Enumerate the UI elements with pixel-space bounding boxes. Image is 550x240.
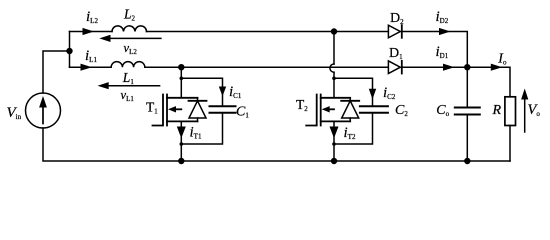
wire rail1 right segment [402, 32, 468, 68]
wire C1 bottom return [181, 113, 222, 144]
body diode of T2 [341, 98, 359, 122]
node output junction [464, 64, 470, 70]
arrow iT2 [330, 127, 339, 139]
wire T1 drain vertical [180, 67, 182, 98]
capacitor C2 [360, 106, 388, 112]
wire C2 bottom return [334, 113, 373, 144]
node bottom T1 junction [178, 158, 184, 164]
wire bottom rail [43, 128, 510, 161]
arrow iC2 [369, 89, 376, 99]
arrow iL2 [83, 28, 95, 35]
node C2 branch tee [332, 77, 336, 81]
arrow Vo [521, 89, 528, 133]
arrow vL2 [99, 35, 161, 42]
capacitor C1 [210, 106, 236, 112]
node rail2 T1 junction [178, 64, 184, 70]
wire split vertical [69, 32, 71, 68]
wire T1 source vertical [180, 121, 182, 161]
wire rail2 right segment [402, 66, 468, 68]
node C1 branch tee [180, 77, 184, 81]
wire Vin top to split node [43, 51, 70, 93]
arrow iT1 [177, 127, 186, 139]
wire rail1 middle segment [147, 31, 389, 33]
diode D2 [388, 25, 401, 38]
inductor L1 [111, 62, 145, 68]
inductor L2 [112, 26, 147, 32]
arrow vL1 [98, 82, 160, 89]
arrow Io [491, 64, 503, 71]
node rail1 T2 junction [331, 28, 337, 34]
wire output to R [467, 67, 510, 97]
wire T2 drain vertical with hop [330, 32, 334, 98]
arrow iD1 [443, 64, 455, 71]
wire R bottom [509, 126, 511, 162]
wire T2 source vertical [333, 121, 335, 161]
arrow iC1 [219, 87, 226, 97]
node bottom Co junction [464, 158, 470, 164]
body diode of T1 [189, 98, 207, 122]
wire rail1 left segment [70, 31, 113, 33]
arrow iL1 [81, 64, 93, 71]
wire C2 branch top [334, 78, 373, 106]
transistor T2 [306, 95, 350, 126]
svg-text:R: R [492, 103, 502, 118]
wire C1 branch top [181, 78, 222, 106]
arrow iD2 [439, 28, 451, 35]
wire rail2 middle segment [145, 66, 389, 68]
transistor T1 [153, 95, 198, 126]
node C2 return tee [332, 142, 336, 146]
wire rail2 left segment [70, 66, 112, 68]
node split junction [66, 48, 72, 54]
node C1 return tee [180, 142, 184, 146]
diode D1 [388, 61, 401, 74]
capacitor Co [455, 67, 480, 161]
node bottom T2 junction [331, 158, 337, 164]
resistor R [505, 97, 516, 126]
source V_in [26, 93, 61, 128]
